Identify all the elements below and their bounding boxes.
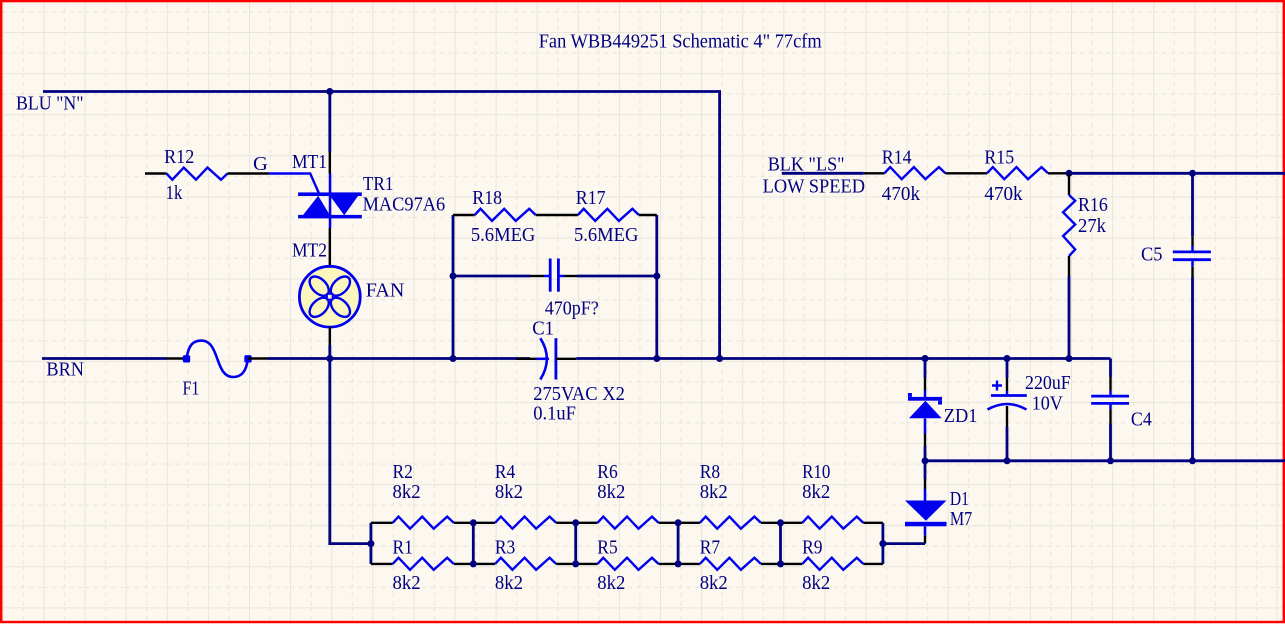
resistor R8 bbox=[700, 517, 761, 529]
diode D1 top stub bbox=[924, 489, 927, 501]
resistor R12 left lead bbox=[145, 172, 167, 174]
capacitor C1 left stub bbox=[536, 358, 549, 361]
svg-text:R14: R14 bbox=[882, 147, 912, 169]
node junction fan/BRN bbox=[326, 355, 333, 362]
wire cap 220uF branch top bbox=[1006, 359, 1009, 379]
node junction cap row left bbox=[450, 273, 457, 280]
resistor R16 bbox=[1063, 195, 1075, 256]
resistor R2 bbox=[393, 517, 454, 529]
wire ladder bar at x=473.3 bbox=[472, 523, 475, 564]
capacitor 220uF bottom pin bbox=[1006, 406, 1008, 427]
svg-text:R1: R1 bbox=[393, 536, 413, 558]
triac TR1 bottom bar bbox=[298, 215, 362, 219]
fan hub bbox=[327, 294, 333, 300]
svg-text:8k2: 8k2 bbox=[700, 572, 728, 594]
svg-text:8k2: 8k2 bbox=[700, 481, 728, 503]
capacitor C4 top plate bbox=[1091, 395, 1129, 398]
wire C4 to bottom rail bbox=[1109, 424, 1112, 461]
zener ZD1 top pin bbox=[924, 378, 926, 390]
fan blade SE bbox=[327, 294, 353, 320]
wire ZD1 branch top bbox=[924, 359, 927, 379]
node junction RC-box right / BRN bbox=[653, 355, 660, 362]
node junction ladder bar bottom x=575.7 bbox=[572, 560, 579, 567]
wire BLK rail right bbox=[1069, 172, 1285, 175]
node junction ladder bar top x=780.5 bbox=[777, 519, 784, 526]
resistor R5 leads bbox=[576, 563, 598, 565]
triac TR1 top bar bbox=[298, 192, 362, 196]
svg-text:5.6MEG: 5.6MEG bbox=[574, 224, 639, 246]
node junction BLU-N / MT1 bbox=[326, 88, 333, 95]
fuse F1 right pin bbox=[248, 357, 268, 359]
wire RC box left vertical bbox=[452, 215, 455, 359]
pin fan bottom bbox=[329, 327, 331, 345]
svg-text:BRN: BRN bbox=[46, 359, 84, 381]
svg-text:R6: R6 bbox=[597, 461, 617, 483]
svg-text:C5: C5 bbox=[1141, 244, 1163, 266]
fuse F1 left pin bbox=[167, 357, 187, 359]
triac TR1 right triangle bbox=[330, 196, 358, 215]
wire BLK LS bbox=[782, 172, 864, 175]
node junction ZD1 bottom bbox=[922, 457, 929, 464]
svg-text:10V: 10V bbox=[1032, 393, 1063, 415]
node junction ladder right bbox=[879, 540, 886, 547]
capacitor 220uF plus sign bbox=[992, 381, 1002, 391]
resistor R12 bbox=[167, 168, 228, 180]
wire between R18 and R17 bbox=[536, 214, 578, 216]
node junction ladder bar bottom x=678.1 bbox=[675, 560, 682, 567]
svg-text:R10: R10 bbox=[802, 461, 830, 483]
resistor R1 leads bbox=[371, 563, 393, 565]
node junction R15/R16 bbox=[1066, 170, 1073, 177]
capacitor C4 top stub bbox=[1109, 391, 1112, 397]
node junction ZD1 top bbox=[922, 355, 929, 362]
svg-text:M7: M7 bbox=[950, 508, 972, 530]
svg-text:R9: R9 bbox=[802, 536, 822, 558]
wire ladder bar at x=780.5 bbox=[779, 523, 782, 564]
wire R16 to BRN rail bbox=[1068, 276, 1071, 359]
capacitor 470pF left stub bbox=[544, 275, 550, 278]
zener ZD1 top stub bbox=[924, 390, 927, 397]
resistor R3 leads bbox=[473, 563, 495, 565]
svg-text:G: G bbox=[253, 153, 268, 175]
node junction C4 bottom bbox=[1107, 457, 1114, 464]
svg-text:R17: R17 bbox=[576, 187, 606, 209]
resistor R9 leads bbox=[781, 563, 803, 565]
capacitor C5 top stub bbox=[1191, 246, 1194, 252]
svg-text:BLU "N": BLU "N" bbox=[16, 93, 84, 115]
resistor R6 leads bbox=[576, 522, 598, 524]
svg-text:F1: F1 bbox=[183, 378, 200, 400]
resistor R12 right lead (pin G) bbox=[228, 172, 269, 174]
wire gate to triac bbox=[269, 174, 319, 194]
fan blade NW bbox=[306, 273, 332, 299]
capacitor 220uF top pin bbox=[1006, 378, 1008, 391]
wire BRN rail right bbox=[576, 357, 1110, 360]
wire ladder bar at x=370.9 bbox=[369, 523, 372, 564]
resistor R17 bbox=[578, 209, 639, 221]
node junction RC-box left / BRN bbox=[450, 355, 457, 362]
resistor R16 bottom lead bbox=[1068, 256, 1070, 276]
node junction ladder bar bottom x=780.5 bbox=[777, 560, 784, 567]
svg-text:FAN: FAN bbox=[366, 279, 405, 301]
resistor R7 leads bbox=[678, 563, 700, 565]
svg-text:8k2: 8k2 bbox=[802, 481, 830, 503]
node junction ladder bar bottom x=473.3 bbox=[470, 560, 477, 567]
fan M1 body bbox=[299, 266, 360, 327]
resistor R9 bbox=[802, 558, 863, 570]
node junction C5 bottom bbox=[1189, 457, 1196, 464]
fuse F1 body bbox=[187, 341, 249, 377]
resistor R15 right lead bbox=[1048, 172, 1069, 174]
svg-text:TR1: TR1 bbox=[363, 173, 394, 195]
resistor R10 bbox=[802, 517, 863, 529]
zener ZD1 cathode right tick bbox=[938, 401, 942, 405]
resistor R15 bbox=[987, 167, 1048, 179]
svg-text:470pF?: 470pF? bbox=[545, 298, 599, 320]
wire MT1 pin upper bbox=[328, 92, 331, 153]
fuse F1 left terminal dot bbox=[183, 355, 190, 362]
wire C5 branch top bbox=[1191, 173, 1194, 237]
capacitor 220uF curved plate bbox=[988, 404, 1027, 410]
capacitor C5 top plate bbox=[1173, 250, 1211, 253]
capacitor 470pF right stub bbox=[558, 275, 564, 278]
resistor R14 bbox=[884, 167, 945, 179]
resistor R4 bbox=[495, 517, 556, 529]
triac TR1 left triangle bbox=[303, 196, 330, 215]
svg-text:R12: R12 bbox=[164, 146, 194, 168]
resistor R17 right lead bbox=[639, 214, 657, 216]
wire D1 to ladder bbox=[883, 542, 925, 545]
resistor R2 leads bbox=[371, 522, 393, 524]
zener ZD1 cathode left tick bbox=[908, 393, 912, 397]
svg-text:8k2: 8k2 bbox=[597, 572, 625, 594]
capacitor 470pF right plate bbox=[557, 259, 560, 292]
diode D1 cathode bar bbox=[905, 522, 947, 527]
wire fan to BRN rail bbox=[328, 345, 331, 359]
capacitor 220uF top stub bbox=[1006, 391, 1009, 396]
svg-text:470k: 470k bbox=[984, 183, 1023, 205]
node junction ladder bar top x=575.7 bbox=[572, 519, 579, 526]
resistor R14 left lead bbox=[864, 172, 885, 174]
wire C4 branch top bbox=[1109, 359, 1112, 378]
svg-text:R8: R8 bbox=[700, 461, 720, 483]
svg-text:27k: 27k bbox=[1078, 215, 1107, 237]
wire BRN rail mid bbox=[268, 357, 530, 360]
zener ZD1 bottom pin bbox=[924, 434, 926, 446]
svg-text:R16: R16 bbox=[1078, 194, 1108, 216]
capacitor 220uF top plate bbox=[991, 394, 1027, 397]
svg-text:MAC97A6: MAC97A6 bbox=[363, 193, 446, 215]
node junction C5 top bbox=[1189, 170, 1196, 177]
zener ZD1 triangle bbox=[909, 401, 942, 419]
svg-text:Fan WBB449251 Schematic 4" 77c: Fan WBB449251 Schematic 4" 77cfm bbox=[539, 30, 822, 52]
svg-text:C1: C1 bbox=[532, 317, 554, 339]
capacitor C4 bottom pin bbox=[1109, 410, 1111, 425]
wire C5 to bottom rail bbox=[1191, 277, 1194, 461]
capacitor 470pF right pin bbox=[565, 275, 578, 277]
wire 220uF to bottom rail bbox=[1006, 427, 1009, 461]
fuse F1 right terminal dot bbox=[244, 355, 251, 362]
capacitor C5 bottom stub bbox=[1191, 260, 1194, 267]
resistor R3 bbox=[495, 558, 556, 570]
wire net BLU N top rail bbox=[43, 92, 720, 359]
capacitor C4 bottom plate bbox=[1091, 402, 1129, 405]
svg-text:8k2: 8k2 bbox=[802, 572, 830, 594]
svg-text:220uF: 220uF bbox=[1025, 372, 1071, 394]
svg-text:R7: R7 bbox=[700, 536, 720, 558]
resistor R10 leads bbox=[781, 522, 803, 524]
wire ladder bar at x=678.1 bbox=[677, 523, 680, 564]
wire ladder bar at x=882.9 bbox=[882, 523, 885, 564]
diode D1 bottom pin bbox=[924, 535, 926, 543]
svg-text:470k: 470k bbox=[882, 183, 921, 205]
resistor R4 leads bbox=[473, 522, 495, 524]
resistor R6 bbox=[598, 517, 659, 529]
resistor R16 top lead bbox=[1068, 173, 1070, 195]
fan blade SW bbox=[306, 294, 332, 320]
capacitor C4 bottom stub bbox=[1109, 403, 1112, 409]
svg-text:5.6MEG: 5.6MEG bbox=[471, 224, 536, 246]
capacitor C1 straight plate bbox=[555, 338, 558, 379]
svg-text:C4: C4 bbox=[1131, 408, 1152, 430]
svg-text:R3: R3 bbox=[495, 536, 515, 558]
wire ZD1 to bottom rail bbox=[924, 446, 927, 461]
node junction BLU-N drop / BRN bbox=[716, 355, 723, 362]
node junction ladder left bbox=[367, 540, 374, 547]
capacitor C4 top pin bbox=[1109, 377, 1111, 391]
resistor R8 leads bbox=[678, 522, 700, 524]
diode D1 top pin bbox=[924, 479, 926, 489]
diode D1 triangle bbox=[905, 501, 947, 521]
svg-text:8k2: 8k2 bbox=[495, 572, 523, 594]
zener ZD1 bottom stub bbox=[924, 419, 927, 435]
resistor R18 bbox=[475, 209, 536, 221]
triac TR1 center line bbox=[329, 174, 332, 229]
fan blade NE bbox=[327, 273, 353, 299]
svg-text:R18: R18 bbox=[472, 187, 502, 209]
svg-text:R4: R4 bbox=[495, 461, 515, 483]
capacitor C1 right pin bbox=[556, 358, 576, 360]
node junction ladder bar top x=678.1 bbox=[675, 519, 682, 526]
pin MT2 bbox=[329, 228, 331, 267]
svg-text:LOW SPEED: LOW SPEED bbox=[763, 175, 865, 197]
svg-text:MT2: MT2 bbox=[292, 239, 327, 261]
wire cap row right bbox=[577, 275, 657, 278]
svg-text:1k: 1k bbox=[166, 182, 183, 204]
node junction R16/BRN bbox=[1066, 355, 1073, 362]
capacitor C5 top pin bbox=[1191, 237, 1193, 246]
svg-text:MT1: MT1 bbox=[292, 151, 327, 173]
svg-text:R15: R15 bbox=[984, 147, 1014, 169]
node junction 220uF top bbox=[1004, 355, 1011, 362]
pin MT1 bbox=[329, 152, 331, 174]
capacitor C1 curved plate bbox=[540, 338, 547, 379]
resistor R7 bbox=[700, 558, 761, 570]
node junction 220uF bottom bbox=[1004, 457, 1011, 464]
svg-text:8k2: 8k2 bbox=[393, 481, 421, 503]
diode D1 bottom stub bbox=[924, 526, 927, 535]
wire D1 branch top bbox=[924, 461, 927, 479]
resistor R1 bbox=[393, 558, 454, 570]
svg-text:8k2: 8k2 bbox=[597, 481, 625, 503]
svg-text:R2: R2 bbox=[393, 461, 413, 483]
wire between R14 R15 bbox=[945, 172, 987, 174]
wire cap row left bbox=[453, 275, 530, 278]
capacitor 470pF left plate bbox=[549, 259, 552, 292]
wire net BRN rail left bbox=[42, 357, 167, 360]
svg-text:R5: R5 bbox=[597, 536, 617, 558]
svg-text:8k2: 8k2 bbox=[393, 572, 421, 594]
svg-text:0.1uF: 0.1uF bbox=[533, 403, 576, 425]
wire RC box right vertical bbox=[655, 215, 658, 359]
capacitor 470pF left pin bbox=[530, 275, 544, 277]
zener ZD1 cathode bar bbox=[908, 397, 942, 401]
resistor R5 bbox=[598, 558, 659, 570]
capacitor C1 left pin bbox=[516, 358, 536, 360]
resistor R18 left lead bbox=[453, 214, 475, 216]
capacitor C5 bottom pin bbox=[1191, 267, 1193, 277]
capacitor C5 bottom plate bbox=[1173, 258, 1211, 261]
node junction cap row right bbox=[653, 273, 660, 280]
wire ladder bar at x=575.7 bbox=[574, 523, 577, 564]
node junction ladder bar top x=473.3 bbox=[470, 519, 477, 526]
svg-text:ZD1: ZD1 bbox=[944, 405, 978, 427]
svg-text:8k2: 8k2 bbox=[495, 481, 523, 503]
wire fan drop to ladder bbox=[330, 359, 371, 544]
wire bottom DC rail bbox=[925, 459, 1285, 462]
